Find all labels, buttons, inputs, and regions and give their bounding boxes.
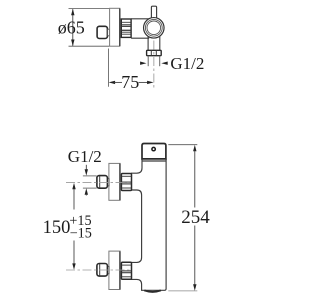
svg-text:−15: −15 <box>70 225 92 241</box>
centerline top union axis <box>66 182 132 184</box>
cartridge outer circle (top view) <box>144 18 165 39</box>
top union neck <box>107 179 109 186</box>
screw hole on cap <box>152 147 155 150</box>
outlet tube below circle (top view) <box>147 36 149 50</box>
flange right edge shadow <box>119 251 121 289</box>
cartridge inner circle <box>147 21 161 35</box>
dimension 150 line upper part <box>72 183 75 189</box>
arrowhead dia65 down <box>71 40 74 47</box>
body top seam line <box>142 160 166 162</box>
knob (wall union end cap, top view) <box>97 26 107 38</box>
arrowhead G1/2 left (points right) <box>140 62 146 65</box>
hex facet lines <box>150 51 152 56</box>
svg-text:75: 75 <box>121 72 139 92</box>
bottom union hex nut (front view) <box>121 262 131 279</box>
column body outline <box>131 159 166 291</box>
knob end cap line <box>99 176 101 188</box>
svg-text:254: 254 <box>181 207 210 228</box>
extension line bottom (flange bottom, for dia 65) <box>69 45 110 47</box>
cartridge stub on top (top view) <box>151 6 156 18</box>
outlet hex nut (top view) <box>147 50 162 55</box>
leader G1/2 lower: up arrow + tail <box>85 188 88 194</box>
extension line knob top <box>83 175 97 177</box>
dimension 150 line lower part <box>73 241 75 265</box>
knurl lines <box>122 22 131 34</box>
svg-text:150: 150 <box>43 218 71 238</box>
svg-text:G1/2: G1/2 <box>68 147 102 166</box>
top union hex nut (front view) <box>121 174 131 191</box>
leader G1/2 upper: vertical + down arrow <box>85 165 87 171</box>
top union flange (front view) <box>109 163 120 200</box>
neck between knob and flange (top view) <box>108 29 110 36</box>
arrowhead G1/2 right (points left) <box>161 62 167 65</box>
flange right edge shadow <box>119 9 121 47</box>
centerline bottom union axis <box>66 269 132 271</box>
dimension 75 right arrow (points right) <box>139 81 149 83</box>
dimension 75 left arrow (points left) <box>109 81 116 84</box>
bottom union knob (front view) <box>97 264 108 277</box>
knurled nut (top view) <box>121 19 131 37</box>
dimension line dia65 <box>72 9 74 46</box>
bottom union neck <box>107 267 109 274</box>
G1/2 thread stub below nut <box>147 56 149 66</box>
extension line top (flange top, for dia 65) <box>69 8 110 10</box>
top cap of column <box>142 144 166 159</box>
dimension 254 line upper part <box>193 145 196 151</box>
svg-text:G1/2: G1/2 <box>170 54 204 73</box>
cartridge middle circle <box>145 19 162 36</box>
valve body (top view) <box>131 18 149 20</box>
bottom union flange (front view) <box>109 251 120 289</box>
escutcheon flange dia65 (top view, edge-on) <box>110 8 120 46</box>
arrowhead dia65 up <box>71 9 74 16</box>
svg-text:ø65: ø65 <box>58 18 85 38</box>
centerline of outlet (top view) <box>153 41 155 89</box>
extension line column bottom (for 254) <box>168 290 197 292</box>
flange right edge shadow <box>119 164 121 201</box>
dimension 254 line lower part <box>194 226 196 286</box>
extension line column top (for 254) <box>168 144 197 146</box>
extension line knob bottom <box>83 187 97 189</box>
bottom outlet arc (dark) <box>144 290 161 292</box>
knob end cap line <box>99 264 101 276</box>
top union knob (front view) <box>97 176 108 189</box>
extension line wall plane (for 75) <box>107 49 109 87</box>
